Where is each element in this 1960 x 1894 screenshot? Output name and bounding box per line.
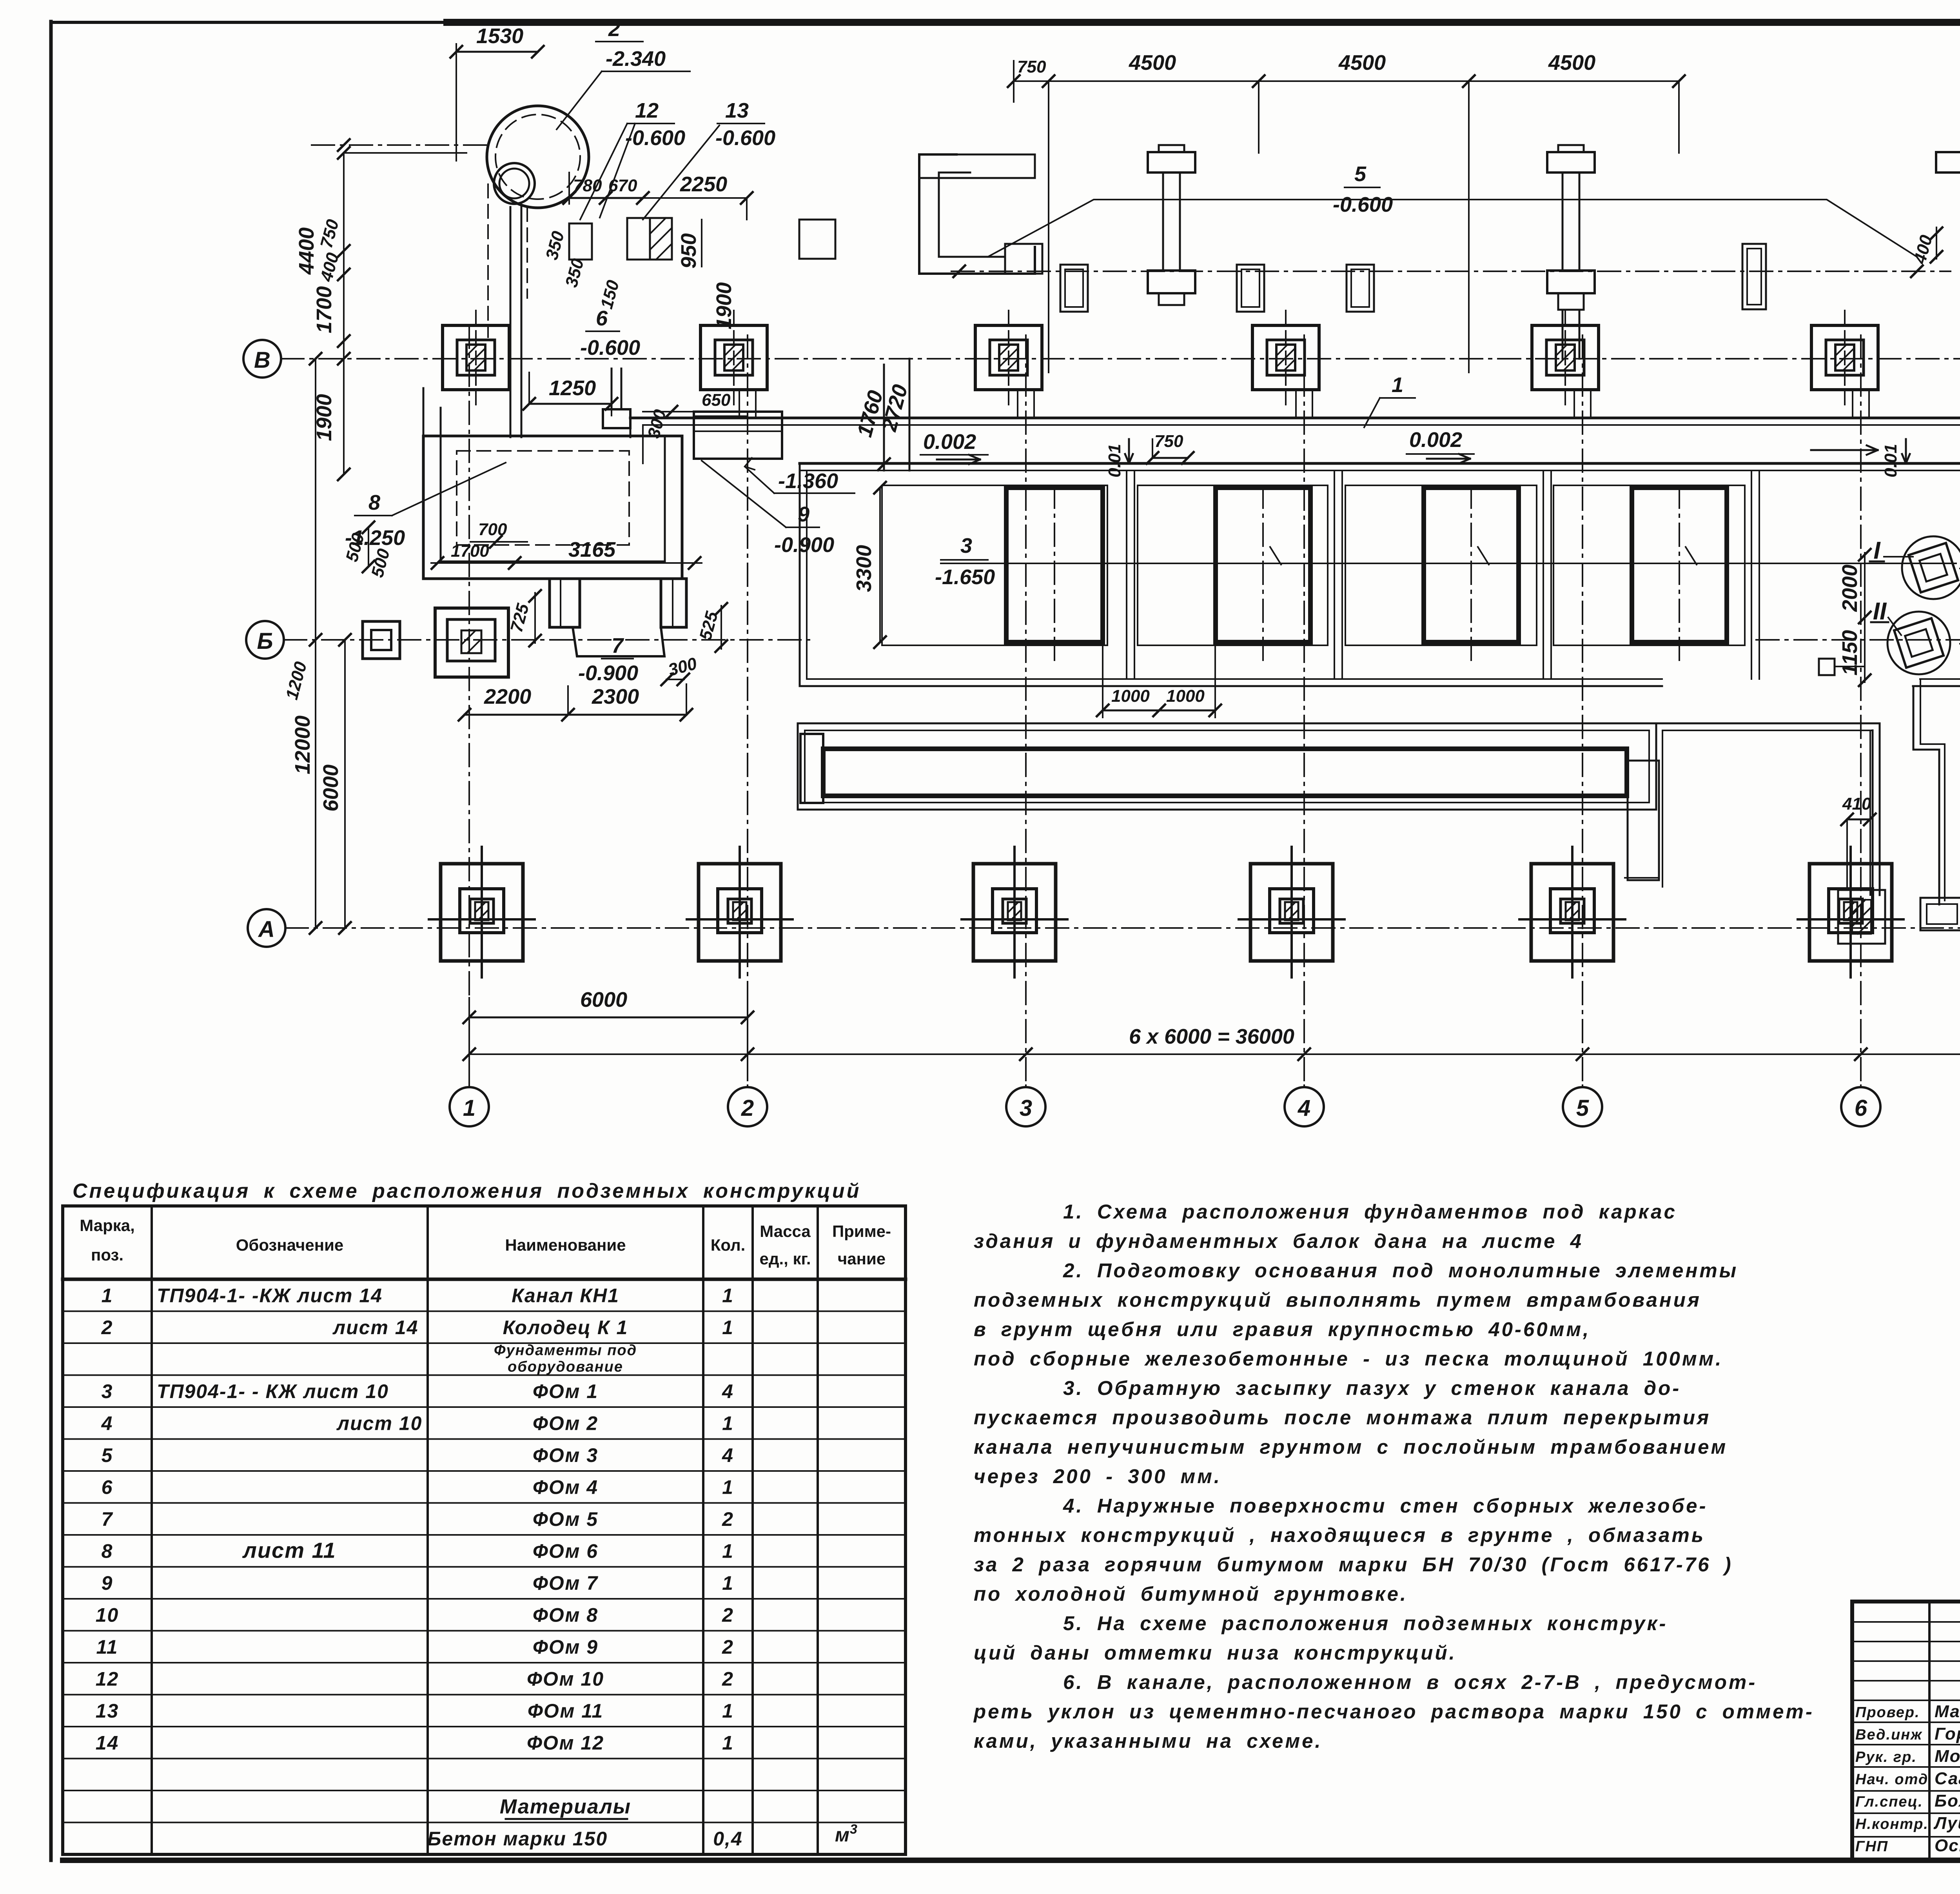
svg-text:2720: 2720 (877, 382, 912, 434)
svg-text:2000: 2000 (1838, 565, 1862, 612)
svg-text:410: 410 (1842, 794, 1871, 814)
pit item 8: double-wall rectangle (423, 436, 682, 579)
dim 1250 (529, 403, 612, 405)
svg-text:ками, указанными на схеме: ками, указанными на схеме. (974, 1730, 1323, 1752)
svg-text:3: 3 (850, 1822, 858, 1837)
well K1 big circle (item 2) (487, 106, 589, 208)
svg-text:Саакьянц: Саакьянц (1935, 1769, 1960, 1788)
svg-text:В: В (254, 347, 270, 373)
svg-text:Гл.спец.: Гл.спец. (1855, 1794, 1923, 1810)
svg-text:-1.360: -1.360 (778, 469, 838, 493)
svg-text:1250: 1250 (549, 376, 596, 400)
pit bay thin rects (882, 485, 1107, 645)
svg-text:ФОм 8: ФОм 8 (533, 1604, 598, 1626)
axis circle 6 (1860, 1085, 1862, 1087)
extension lines bottom (468, 998, 470, 1087)
svg-text:750: 750 (1154, 432, 1183, 451)
left dim chain upper 4400/1700/1900 (343, 153, 345, 474)
svg-text:6. В канале, расположенном: 6. В канале, расположенном в осях 2-7-В … (1063, 1671, 1757, 1693)
svg-text:ций даны отметки низа: ций даны отметки низа конструкций. (974, 1642, 1457, 1664)
step from pit bottom to A row (1913, 686, 1915, 750)
svg-text:12: 12 (96, 1668, 119, 1690)
svg-text:7: 7 (102, 1508, 113, 1530)
svg-text:1900: 1900 (712, 282, 736, 329)
svg-text:лист 10: лист 10 (336, 1413, 422, 1435)
svg-text:-0.600: -0.600 (715, 126, 775, 150)
svg-text:Н.контр.: Н.контр. (1855, 1816, 1929, 1832)
svg-text:3165: 3165 (568, 538, 616, 561)
foundation V-1 (443, 325, 509, 390)
svg-text:поз.: поз. (91, 1246, 123, 1264)
equipment column at 2990 (1148, 152, 1195, 173)
svg-text:пускается производить посл: пускается производить после монтажа плит… (974, 1406, 1711, 1429)
svg-text:780: 780 (573, 176, 602, 195)
svg-text:Марка,: Марка, (80, 1216, 135, 1235)
svg-text:Кол.: Кол. (711, 1236, 746, 1254)
axis circle V (243, 340, 281, 378)
svg-text:Осташевский,: Осташевский, (1935, 1836, 1960, 1855)
svg-text:4: 4 (1298, 1095, 1310, 1121)
svg-text:4500: 4500 (1129, 51, 1176, 74)
small pair rect A (1060, 265, 1088, 312)
svg-text:2: 2 (722, 1636, 734, 1658)
svg-text:3: 3 (102, 1380, 113, 1402)
svg-text:подземных конструкций выпо: подземных конструкций выполнять путем вт… (974, 1289, 1701, 1311)
lower canal left cap (800, 734, 823, 803)
svg-text:2: 2 (722, 1508, 734, 1530)
svg-text:под сборные железобетонные: под сборные железобетонные - из песка то… (974, 1347, 1723, 1370)
svg-text:лист 14: лист 14 (332, 1317, 418, 1338)
svg-text:Провер.: Провер. (1855, 1704, 1920, 1721)
trapezoid dim line item 5 (988, 200, 1917, 257)
svg-text:1: 1 (722, 1317, 734, 1338)
svg-text:4400: 4400 (295, 227, 318, 275)
pit area outer walls (799, 463, 801, 686)
svg-text:3300: 3300 (852, 545, 876, 592)
svg-text:Материалы: Материалы (500, 1796, 631, 1818)
pit8 inner dashed (457, 451, 629, 545)
svg-text:950: 950 (677, 233, 701, 269)
svg-text:II: II (1873, 598, 1887, 625)
svg-text:10: 10 (96, 1604, 119, 1626)
svg-text:4: 4 (722, 1444, 734, 1466)
axis circle A (248, 909, 285, 947)
svg-text:Боярченко: Боярченко (1935, 1791, 1960, 1810)
svg-text:1: 1 (722, 1572, 734, 1594)
svg-text:Луценко: Луценко (1933, 1814, 1960, 1833)
svg-text:14: 14 (96, 1732, 119, 1754)
small pair rect C (1347, 265, 1374, 312)
svg-text:4: 4 (101, 1413, 113, 1435)
connector stubs axes 2-6 to canal (739, 392, 740, 418)
svg-text:ТП904-1- -КЖ лист 14: ТП904-1- -КЖ лист 14 (157, 1285, 383, 1307)
svg-text:в грунт щебня или грави: в грунт щебня или гравия крупностью 40-6… (974, 1318, 1590, 1340)
title block signature columns (1928, 1602, 1931, 1860)
connector line B cluster (1835, 666, 1865, 667)
found rect right of 13 (799, 220, 835, 259)
axis circle B (246, 621, 284, 659)
svg-text:1: 1 (722, 1540, 734, 1562)
svg-text:здания и фундаментных балок: здания и фундаментных балок дана на лист… (974, 1230, 1583, 1252)
svg-text:0,4: 0,4 (713, 1828, 743, 1850)
axis circle 4 (1303, 1085, 1305, 1087)
svg-text:1900: 1900 (312, 394, 336, 441)
svg-text:ФОм 3: ФОм 3 (533, 1444, 598, 1466)
svg-text:11: 11 (96, 1636, 118, 1658)
svg-text:5: 5 (102, 1444, 113, 1466)
svg-text:ФОм 6: ФОм 6 (533, 1540, 598, 1562)
svg-text:1: 1 (722, 1476, 734, 1498)
svg-text:-0.900: -0.900 (578, 661, 638, 685)
axis circle 1 (468, 1085, 470, 1087)
svg-text:-0.900: -0.900 (774, 533, 834, 557)
foundation A-2 (699, 864, 781, 961)
pit check marks (1270, 547, 1281, 565)
svg-text:3. Обратную засыпку пазух: 3. Обратную засыпку пазух у стенок канал… (1063, 1377, 1681, 1399)
svg-text:12000: 12000 (291, 715, 314, 774)
svg-text:4: 4 (722, 1380, 734, 1402)
foundation A-4 (1250, 864, 1333, 961)
foundation A-1 (441, 864, 523, 961)
foundation B-0 small (363, 621, 400, 659)
svg-text:ТП904-1- - КЖ лист 10: ТП904-1- - КЖ лист 10 (157, 1380, 389, 1402)
svg-text:0.002: 0.002 (1409, 428, 1462, 452)
svg-text:ФОм 9: ФОм 9 (533, 1636, 598, 1658)
svg-text:1: 1 (722, 1700, 734, 1722)
pit item 7: U-shape with stubs (550, 579, 580, 627)
small bold rect left of canal start (603, 409, 630, 428)
svg-text:тонных конструкций , находящ: тонных конструкций , находящиеся в грунт… (974, 1524, 1705, 1546)
dims 1000 1000 below pit1 (1102, 645, 1103, 717)
svg-text:8: 8 (368, 491, 380, 514)
svg-text:1000: 1000 (1111, 686, 1150, 706)
spec table grid (63, 1206, 906, 1854)
foundation V-5 (1532, 325, 1599, 390)
svg-text:-0.600: -0.600 (625, 126, 685, 150)
circle found I (1902, 536, 1960, 599)
svg-text:Фундаменты под: Фундаменты под (494, 1342, 637, 1359)
left dim 6000 B-A (344, 640, 346, 928)
canal top double line (630, 417, 1960, 419)
pit bold rect 2 (1216, 488, 1310, 642)
svg-text:2300: 2300 (592, 685, 639, 708)
svg-text:через 200 - 300 мм.: через 200 - 300 мм. (974, 1465, 1221, 1487)
pit bold rect 4 (1632, 488, 1727, 642)
svg-text:Моргунов: Моргунов (1935, 1747, 1960, 1766)
svg-text:13: 13 (96, 1700, 119, 1722)
svg-text:7: 7 (612, 634, 624, 657)
rect structure 650 (item 9 source) (694, 412, 782, 459)
svg-text:4500: 4500 (1548, 51, 1595, 74)
svg-text:2: 2 (101, 1317, 113, 1338)
foundation B-1 (435, 608, 508, 677)
small found rect 13 (hatched pair) (627, 218, 650, 260)
svg-text:725: 725 (507, 601, 533, 634)
svg-text:по холодной битумной грун: по холодной битумной грунтовке. (974, 1583, 1408, 1605)
pit label line (941, 563, 1956, 564)
riser double line from well down (510, 207, 512, 437)
foundation V-6 (1811, 325, 1878, 390)
svg-text:2. Подготовку основания по: 2. Подготовку основания под монолитные э… (1063, 1259, 1738, 1282)
svg-text:ФОм 5: ФОм 5 (533, 1508, 598, 1530)
axis circle 3 (1025, 1085, 1027, 1087)
svg-text:Вед.инж: Вед.инж (1855, 1727, 1922, 1743)
svg-text:чание: чание (838, 1249, 886, 1268)
svg-text:1: 1 (722, 1732, 734, 1754)
svg-text:-0.600: -0.600 (1333, 193, 1393, 216)
equipment column small at 4500 (1742, 244, 1766, 309)
svg-text:6000: 6000 (319, 765, 343, 812)
lower canal outer double rect (798, 723, 1656, 810)
svg-text:Обозначение: Обозначение (236, 1236, 344, 1254)
rotated dims 1760 2720 (883, 365, 885, 470)
svg-text:-1.250: -1.250 (345, 526, 405, 550)
dashdot tie line through columns (951, 271, 1951, 272)
dim 950 and 1900 right of 13 (746, 198, 748, 220)
svg-text:1700: 1700 (451, 541, 489, 561)
svg-text:ФОм 11: ФОм 11 (528, 1700, 603, 1722)
svg-text:ФОм 4: ФОм 4 (533, 1476, 598, 1498)
svg-text:I: I (1873, 537, 1881, 564)
right L-wall cluster (1936, 152, 1960, 288)
svg-text:1700: 1700 (312, 286, 336, 333)
svg-text:0.01: 0.01 (1881, 444, 1900, 478)
svg-text:3: 3 (1020, 1095, 1032, 1121)
axis circle 5 (1582, 1085, 1583, 1087)
dashdot verticals in pits (1054, 485, 1055, 666)
well K1 inner circle (494, 163, 535, 204)
small pair rect B (1237, 265, 1264, 312)
svg-text:за 2 раза горячим битумом: за 2 раза горячим битумом марки БН 70/30… (974, 1553, 1733, 1576)
pit partitions (1126, 470, 1127, 679)
svg-text:1: 1 (722, 1413, 734, 1435)
svg-text:А: А (258, 917, 275, 942)
svg-text:1: 1 (1392, 373, 1403, 397)
svg-text:реть уклон из цементно-песч: реть уклон из цементно-песчаного раствор… (973, 1700, 1814, 1723)
svg-text:9: 9 (102, 1572, 113, 1594)
title block outer (1852, 1602, 1960, 1860)
svg-text:Канал КН1: Канал КН1 (512, 1285, 619, 1307)
svg-text:6000: 6000 (580, 988, 627, 1011)
svg-text:Горская: Горская (1935, 1724, 1960, 1743)
foundation A-3 (973, 864, 1056, 961)
circle found II (1887, 612, 1950, 674)
svg-text:1200: 1200 (282, 659, 311, 702)
svg-text:Приме-: Приме- (832, 1222, 891, 1240)
svg-text:1: 1 (102, 1285, 113, 1307)
dim 2000 rotated (1864, 553, 1866, 619)
lower canal bold rect (823, 749, 1627, 796)
top dim line 750/4500x3 (1013, 61, 1014, 102)
svg-text:0.01: 0.01 (1105, 444, 1124, 478)
horizontal axis line B (row B middle) (284, 639, 809, 641)
left dim chain 12000 (315, 359, 316, 928)
svg-text:2: 2 (722, 1668, 734, 1690)
foundation V-2 (701, 325, 767, 390)
svg-text:750: 750 (317, 217, 343, 250)
equipment column at 4010 (1547, 152, 1595, 173)
svg-text:Б: Б (257, 628, 273, 654)
small rect at A row between axes 5-6 (1920, 898, 1960, 930)
svg-text:Масса: Масса (760, 1222, 811, 1240)
title block signature rows (1852, 1621, 1960, 1623)
svg-text:6: 6 (102, 1476, 113, 1498)
svg-text:4. Наружные поверхности ст: 4. Наружные поверхности стен сборных жел… (1063, 1494, 1708, 1517)
small inner rect left of room (1628, 761, 1659, 880)
foundation V-3 (975, 325, 1042, 390)
foundation A-6 canal arm connection (1869, 730, 1871, 895)
vertical axis lines 1-7 (468, 325, 470, 1085)
svg-text:0.002: 0.002 (923, 430, 976, 454)
dim 1150 rotated (1864, 619, 1866, 682)
dashdot to well (312, 144, 486, 146)
svg-text:6: 6 (596, 307, 608, 330)
dims 780 670 2250 (568, 173, 570, 204)
canal bottom / pit top double line (800, 462, 1960, 465)
svg-text:Нач. отд: Нач. отд (1855, 1771, 1928, 1788)
foundation A-6 (1809, 864, 1892, 961)
svg-text:ФОм 1: ФОм 1 (533, 1380, 598, 1402)
svg-text:1: 1 (722, 1285, 734, 1307)
svg-text:-0.600: -0.600 (580, 336, 640, 360)
equipment frame left (open rectangle) (919, 154, 1035, 274)
svg-text:350: 350 (542, 229, 568, 262)
dimension 6 x 6000 = 36000 (469, 1053, 1960, 1055)
svg-text:650: 650 (702, 390, 731, 410)
svg-text:ФОм 12: ФОм 12 (527, 1732, 604, 1754)
svg-text:оборудование: оборудование (508, 1359, 623, 1375)
svg-text:2250: 2250 (680, 173, 727, 196)
svg-text:500: 500 (368, 547, 394, 579)
svg-text:5: 5 (1576, 1095, 1589, 1121)
svg-text:м: м (835, 1824, 850, 1846)
svg-text:1: 1 (463, 1095, 475, 1121)
svg-text:Наименование: Наименование (505, 1236, 626, 1254)
svg-text:6: 6 (1855, 1095, 1867, 1121)
pit bold rect 1 (1006, 488, 1103, 642)
svg-text:4500: 4500 (1338, 51, 1386, 74)
svg-text:13: 13 (725, 99, 749, 122)
svg-text:Рук. гр.: Рук. гр. (1855, 1749, 1917, 1765)
svg-text:Колодец К 1: Колодец К 1 (503, 1317, 628, 1338)
svg-text:1000: 1000 (1166, 686, 1205, 706)
svg-text:2200: 2200 (484, 685, 531, 708)
dim 1530 top (456, 44, 457, 161)
svg-text:525: 525 (696, 609, 722, 642)
svg-text:-2.340: -2.340 (606, 47, 666, 71)
svg-text:канала непучинистым грунтом: канала непучинистым грунтом с послойным … (974, 1436, 1728, 1458)
svg-text:ФОм 7: ФОм 7 (533, 1572, 598, 1594)
dim 2200 2300 (465, 714, 686, 716)
svg-text:3: 3 (960, 534, 972, 557)
svg-text:ед., кг.: ед., кг. (759, 1249, 811, 1268)
svg-text:ГНП: ГНП (1855, 1838, 1888, 1855)
svg-text:2: 2 (741, 1095, 754, 1121)
svg-text:12: 12 (635, 99, 659, 122)
foundation V-4 (1252, 325, 1319, 390)
svg-text:2: 2 (608, 17, 620, 41)
svg-text:1150: 1150 (1838, 630, 1862, 676)
svg-text:670: 670 (608, 176, 637, 195)
svg-text:6 x 6000 = 36000: 6 x 6000 = 36000 (1129, 1025, 1294, 1048)
axis circle 2 (747, 1085, 748, 1087)
dim 3300 rotated (879, 488, 881, 642)
svg-text:Бетон марки 150: Бетон марки 150 (427, 1828, 608, 1850)
svg-text:ФОм 10: ФОм 10 (527, 1668, 604, 1690)
arrow right mid canal (1811, 449, 1878, 451)
svg-text:2: 2 (722, 1604, 734, 1626)
svg-text:-1.650: -1.650 (935, 565, 995, 589)
svg-text:1530: 1530 (476, 24, 523, 48)
horizontal axis line A (285, 927, 1960, 929)
small dims 500 (368, 527, 369, 567)
svg-text:Спецификация к схеме распо: Спецификация к схеме расположения подзем… (73, 1180, 861, 1202)
svg-text:5. На схеме расположения: 5. На схеме расположения подземных конст… (1063, 1612, 1668, 1634)
svg-text:лист 11: лист 11 (242, 1538, 336, 1563)
border frame (51, 21, 451, 24)
svg-text:350: 350 (562, 256, 588, 289)
svg-text:750: 750 (1017, 57, 1046, 76)
horizontal axis line B (row V) (281, 358, 1960, 360)
svg-text:5: 5 (1354, 162, 1367, 186)
svg-text:150: 150 (597, 278, 623, 311)
svg-text:ФОм 2: ФОм 2 (533, 1413, 598, 1435)
svg-text:Макарова: Макарова (1935, 1702, 1960, 1721)
svg-text:1. Схема расположения фунд: 1. Схема расположения фундаментов под ка… (1063, 1200, 1677, 1223)
pit bold rect 3 (1424, 488, 1519, 642)
dimension 6000 between axes 1-2 (469, 1017, 748, 1019)
small found rect 12 (569, 223, 592, 260)
foundation A-5 (1531, 864, 1613, 961)
right room walls (1656, 723, 1880, 725)
svg-text:8: 8 (102, 1540, 113, 1562)
